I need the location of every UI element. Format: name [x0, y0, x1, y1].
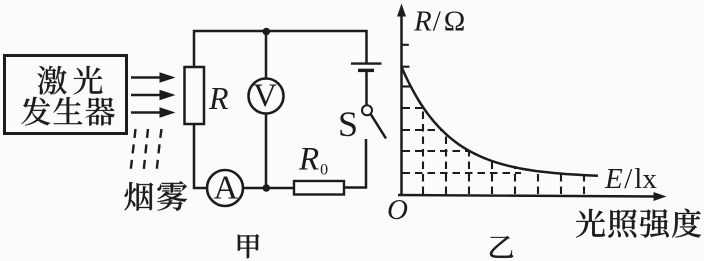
svg-text:O: O — [387, 194, 408, 226]
svg-text:A: A — [214, 170, 239, 207]
label 光照强度 — [576, 209, 701, 238]
laser beam arrows — [131, 72, 176, 117]
svg-text:R/Ω: R/Ω — [413, 6, 465, 38]
label 烟雾 — [124, 181, 187, 211]
svg-text:S: S — [338, 104, 358, 144]
wire top — [194, 31, 367, 67]
node bottom — [263, 184, 271, 192]
ammeter A — [207, 170, 243, 206]
label 乙 — [490, 236, 513, 258]
switch S — [362, 105, 386, 138]
svg-text:V: V — [253, 78, 277, 114]
resistor R — [185, 67, 205, 124]
label 甲 — [238, 234, 259, 258]
svg-text:R: R — [208, 80, 229, 116]
wire bottom right — [344, 139, 366, 188]
y-axis ticks — [401, 45, 410, 67]
voltmeter V — [249, 78, 284, 114]
resistance curve — [402, 68, 598, 176]
label 激光发生器 — [21, 66, 114, 126]
resistor R0 — [294, 181, 344, 195]
svg-text:E/lx: E/lx — [604, 163, 657, 195]
wire battery to switch — [365, 70, 368, 105]
battery — [351, 64, 382, 71]
node top — [263, 28, 271, 36]
svg-text:R0: R0 — [298, 142, 328, 179]
x-axis — [398, 192, 667, 201]
voltmeter branch wire — [265, 31, 268, 188]
y-axis — [397, 4, 406, 197]
wire bottom mid — [243, 187, 294, 190]
wire left lower — [194, 124, 207, 188]
dashed gridlines — [403, 87, 585, 195]
smoke dashed lines — [131, 129, 162, 172]
laser generator box — [5, 56, 127, 134]
